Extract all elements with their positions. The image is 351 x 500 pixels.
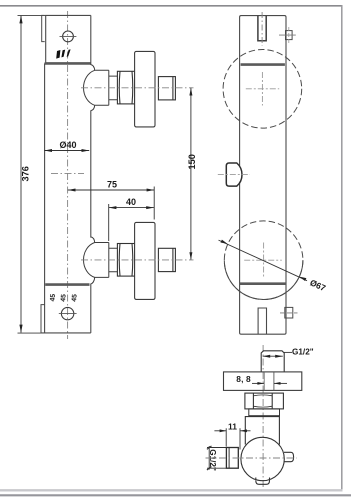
bottom bracket thick top edge [45, 283, 89, 286]
svg-text:376: 376 [20, 166, 30, 181]
dim 376 arrow top [19, 15, 22, 23]
detail body [245, 417, 279, 445]
bottom bracket right edge [90, 285, 92, 333]
bottom slot [258, 308, 266, 334]
top bracket hole [63, 31, 74, 42]
dim Ø40 [44, 150, 89, 152]
bottom right fitting [285, 307, 293, 318]
detail knob [226, 448, 238, 469]
detail bottom tab [256, 478, 270, 485]
svg-text:G1/2": G1/2" [208, 449, 217, 471]
top bracket thick bottom edge [45, 62, 91, 65]
main vertical centerline (front) [67, 11, 69, 339]
detail right tab [284, 452, 294, 461]
dim 75 [68, 189, 155, 191]
detail vertical centerline [262, 345, 264, 487]
body right edge upper [90, 15, 92, 65]
detail collar [249, 409, 280, 416]
svg-text:Ø40: Ø40 [60, 140, 77, 150]
body right edge middle [90, 110, 92, 237]
button centerline [218, 174, 250, 176]
detail plate inner line [273, 372, 275, 391]
nipple bottom [158, 248, 175, 271]
side body outline [240, 16, 286, 335]
bottom bracket tab [41, 305, 45, 333]
dim 376 arrow bottom [19, 325, 22, 333]
dashed circle top (knob) [223, 50, 302, 129]
hex nut [117, 71, 134, 104]
bottom bracket bottom edge [45, 332, 91, 334]
G1/2 internal dim line [263, 355, 283, 357]
side thick line top (bracket edge) [241, 63, 285, 66]
dim 376 extension line top [18, 14, 46, 16]
top slot [258, 16, 266, 41]
dim 376 line [20, 15, 22, 332]
bottom hatch marks [49, 293, 78, 302]
cylinder [109, 76, 118, 100]
nipple [158, 77, 175, 100]
top fitting centerlines [279, 34, 296, 36]
bell bottom [84, 237, 109, 284]
svg-text:G1/2": G1/2" [292, 348, 314, 357]
dim 376 extension line bottom [18, 332, 46, 334]
detail plate [224, 372, 302, 391]
top bracket tab [42, 15, 45, 41]
svg-text:45: 45 [60, 294, 68, 302]
top connector centerline [81, 87, 194, 89]
top circle center cross [246, 88, 279, 90]
svg-text:11: 11 [228, 422, 237, 432]
bottom connector centerline [81, 259, 194, 261]
page bottom shadow [0, 489, 343, 491]
bottom circle solid lower arc [224, 260, 303, 299]
bottom circle center cross [244, 259, 282, 261]
svg-text:45: 45 [71, 294, 79, 302]
svg-text:150: 150 [187, 154, 197, 169]
page right border [341, 5, 343, 489]
detail hex nut [245, 393, 284, 409]
top right fitting [286, 31, 293, 40]
svg-text:40: 40 [126, 197, 136, 207]
detail knob inner line [228, 448, 230, 469]
bottom bracket hole [61, 307, 73, 319]
detail circle (valve body front) [241, 437, 284, 480]
side thick line bottom (bracket edge) [240, 282, 286, 285]
extension line right (75/40) [153, 187, 155, 220]
bottom bracket hole cross tick [59, 313, 77, 315]
body left edge [44, 63, 46, 333]
top bracket hole cross tick [60, 36, 77, 38]
page top border [0, 5, 342, 7]
escutcheon plate bottom [135, 222, 155, 299]
extension line left (40) [108, 204, 110, 241]
detail horizontal centerline [206, 457, 297, 459]
dim 150 [190, 88, 192, 260]
short horizontal centerline (button height) [51, 173, 84, 175]
dashed circle bottom (knob, D67) [224, 221, 303, 300]
G1/2 leader [284, 351, 292, 353]
knob extension lines [207, 447, 226, 449]
svg-text:8, 8: 8, 8 [236, 374, 251, 384]
dim Ø67 diagonal [219, 240, 308, 281]
left button [226, 163, 242, 186]
top hatch marks [56, 49, 70, 58]
detail nipple [261, 351, 284, 372]
hex nut bottom [117, 244, 134, 277]
top slot centerline [261, 12, 263, 46]
escutcheon plate [135, 51, 155, 127]
svg-text:75: 75 [107, 180, 117, 190]
top bracket outline [46, 15, 91, 63]
svg-text:45: 45 [49, 293, 57, 301]
cylinder bottom [109, 248, 118, 272]
G1/2 rotated dim [208, 446, 210, 470]
dim 40 [109, 207, 154, 209]
bottom fitting centerlines [280, 312, 298, 314]
bell [84, 65, 109, 111]
